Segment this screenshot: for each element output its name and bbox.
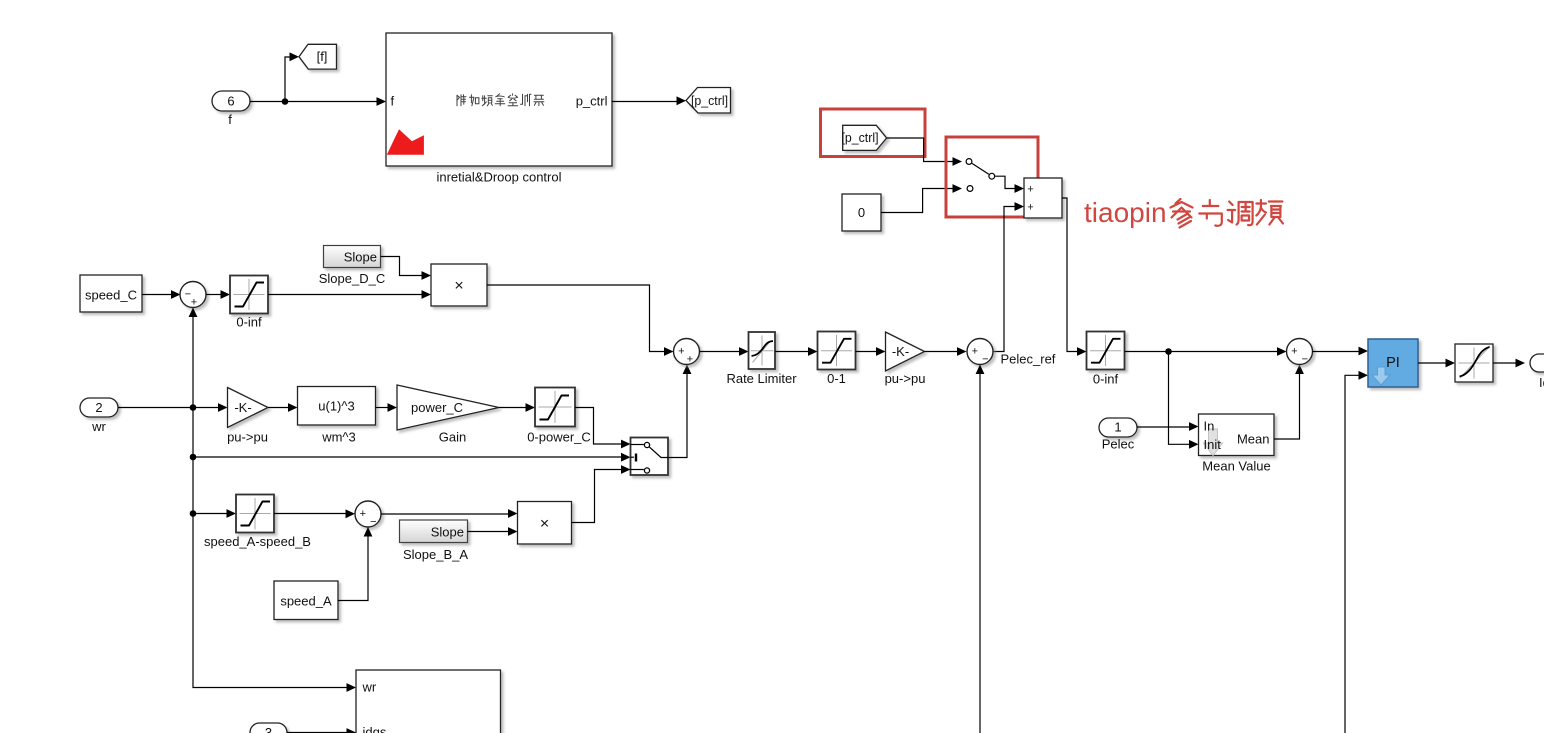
wire wm^3 -> power_C (376, 403, 398, 412)
outport (cut off at right edge) (1530, 354, 1544, 372)
Mean Value block (1199, 414, 1275, 456)
svg-text:Slope_D_C: Slope_D_C (319, 271, 386, 286)
manual switch SW1 (966, 159, 1024, 193)
wire wr trunk -> switch in2 (190, 454, 197, 461)
wire Pelec_ref sum up to S1 in2 (994, 202, 1025, 351)
svg-text:Id: Id (1539, 375, 1544, 390)
svg-text:−: − (1302, 353, 1308, 365)
wire S1 out down to 0-inf (1062, 198, 1087, 356)
svg-text:p_ctrl: p_ctrl (576, 94, 608, 109)
wire sum S8 -> PI (1313, 347, 1369, 356)
svg-text:Init: Init (1204, 437, 1222, 452)
CJK title 附加频率控制器 (drawn as paths) (457, 94, 544, 106)
red annotation text tiaopin参与调频 (1084, 197, 1283, 228)
gain G2 pu->pu (886, 332, 925, 371)
svg-text:+: + (1027, 201, 1033, 213)
PI block (blue referenced subsystem) (1368, 339, 1418, 387)
sum S8 (circle + -) (1287, 339, 1313, 365)
saturation 0-power_C (535, 388, 575, 427)
svg-text:×: × (540, 516, 549, 533)
fcn block wm^3 u(1)^3 (298, 387, 376, 426)
svg-text:0-inf: 0-inf (1093, 372, 1119, 387)
switch SW2 (631, 438, 669, 476)
svg-text:6: 6 (227, 94, 234, 109)
red annotation box 2 (946, 137, 1038, 217)
svg-text:PI: PI (1386, 355, 1400, 371)
wire trunk -> saturation speed_A-speed_B (193, 509, 236, 518)
wire product P2 -> switch in3 (572, 465, 631, 522)
wire power_C -> 0-power_C (499, 403, 535, 412)
svg-text:Slope: Slope (344, 250, 377, 265)
constant Slope (Slope_B_A) (400, 520, 468, 543)
svg-text:+: + (678, 346, 684, 358)
svg-text:wr: wr (91, 419, 106, 434)
svg-text:[p_ctrl]: [p_ctrl] (842, 130, 879, 145)
wire sum -> saturation 0-inf (206, 290, 230, 299)
wire Slope -> product top input (381, 257, 432, 280)
saturation speed_A-speed_B (236, 495, 274, 533)
wire gain -> sum Pelec_ref (925, 347, 967, 356)
wire sum S6 -> Rate Limiter (700, 347, 749, 356)
svg-text:×: × (454, 278, 463, 295)
subsystem U2 (cut off at bottom) (356, 670, 501, 733)
svg-text:Pelec: Pelec (1102, 437, 1135, 452)
svg-text:Slope_B_A: Slope_B_A (403, 547, 468, 562)
svg-text:speed_A-speed_B: speed_A-speed_B (204, 534, 311, 549)
subsystem U1 inretial&Droop control (386, 33, 612, 166)
sum S6 (circle + +) (674, 339, 700, 365)
wire gain -> wm^3 (268, 403, 298, 412)
constant speed_A (274, 581, 338, 620)
inport 1 (Pelec) (1099, 418, 1137, 437)
wire 0-power_C -> switch in1 (575, 408, 631, 449)
svg-text:In: In (1204, 419, 1215, 434)
gain power_C (397, 385, 499, 430)
svg-text:0-inf: 0-inf (236, 315, 262, 330)
wire product -> sum (+ +) (487, 285, 674, 356)
svg-text:speed_C: speed_C (85, 288, 137, 303)
svg-text:3: 3 (265, 725, 272, 733)
svg-text:pu->pu: pu->pu (227, 430, 268, 445)
init gray arrow icon (1204, 429, 1223, 456)
inport 2 (wr) (80, 398, 118, 417)
red waveform icon (387, 129, 424, 155)
wire saturation -> sum S5 (274, 509, 355, 518)
saturation 0-inf (left) (230, 276, 268, 314)
product P2 (x) (518, 502, 572, 545)
svg-text:[f]: [f] (317, 49, 328, 64)
sum S2 (circle - +) (180, 282, 206, 308)
gain G1 pu->pu (228, 388, 269, 428)
saturation 0-1 (818, 332, 856, 370)
wire 0-inf -> sum S8 (1125, 347, 1287, 356)
wire speed_A -> sum S5 bottom (338, 527, 372, 601)
svg-text:idqs: idqs (363, 725, 387, 733)
product P1 (x) (431, 264, 487, 306)
svg-text:[p_ctrl]: [p_ctrl] (691, 93, 728, 108)
svg-text:+: + (972, 346, 978, 358)
wire long vertical 2 -> PI in2 (1345, 371, 1368, 733)
svg-text:+: + (1027, 183, 1033, 195)
node junction after 0-inf (1165, 348, 1172, 355)
wire Slope_B_A -> product P2 bottom (468, 527, 518, 536)
svg-text:pu->pu: pu->pu (885, 371, 926, 386)
svg-text:Rate Limiter: Rate Limiter (726, 371, 797, 386)
svg-text:+: + (687, 353, 693, 365)
wire long vertical 1 up into S7 bottom (976, 365, 985, 733)
wire junction down -> Mean Value Init (1169, 352, 1199, 449)
svg-text:Gain: Gain (439, 430, 466, 445)
svg-text:tiaopin: tiaopin (1084, 197, 1167, 228)
rate limiter block (749, 332, 776, 369)
constant 0 (842, 194, 881, 231)
svg-text:f: f (228, 112, 232, 127)
wire from [p_ctrl] -> manual switch in1 (887, 138, 962, 166)
wire subsystem -> goto [p_ctrl] (612, 96, 686, 105)
svg-text:-K-: -K- (234, 400, 251, 415)
wire PI -> shaping block (1418, 359, 1455, 368)
svg-text:1: 1 (1114, 420, 1121, 435)
svg-text:0: 0 (858, 205, 865, 220)
PI badge arrow (1372, 367, 1390, 385)
svg-text:0-power_C: 0-power_C (527, 430, 591, 445)
svg-text:power_C: power_C (411, 400, 463, 415)
svg-text:wr: wr (362, 680, 377, 695)
from tag [p_ctrl] (843, 125, 887, 150)
svg-text:+: + (1291, 346, 1297, 358)
node junction wr/vertical (190, 404, 197, 411)
wire 6 -> subsystem f (250, 97, 386, 106)
wire 0-1 -> gain (856, 347, 886, 356)
constant speed_C (80, 275, 142, 312)
node junction trunk/speed_A row (190, 510, 197, 517)
wire 2 -> gain pu->pu (118, 403, 228, 412)
svg-text:Mean Value: Mean Value (1202, 459, 1270, 474)
svg-text:−: − (370, 516, 376, 528)
sum S5 (circle + -) (355, 501, 381, 527)
svg-text:u(1)^3: u(1)^3 (318, 399, 354, 414)
wire switch -> sum (+ +) bottom (668, 365, 691, 458)
svg-text:Mean: Mean (1237, 432, 1270, 447)
wire speed_C -> sum (142, 290, 181, 299)
wire Mean -> sum S8 bottom (1274, 365, 1304, 440)
svg-text:−: − (982, 353, 988, 365)
wire vertical trunk from wr up to sum S2 and down to subsystem (189, 308, 356, 692)
svg-text:speed_A: speed_A (280, 594, 332, 609)
sum block S1 (rectangular ++) (1024, 178, 1062, 218)
svg-text:inretial&Droop control: inretial&Droop control (436, 170, 561, 185)
svg-text:Pelec_ref: Pelec_ref (1001, 352, 1056, 367)
constant Slope (Slope_D_C) (324, 246, 381, 268)
svg-text:wm^3: wm^3 (321, 430, 356, 445)
svg-text:+: + (191, 297, 197, 309)
wire branch to goto [f] (285, 52, 299, 101)
wire 1 -> Mean Value In (1137, 422, 1199, 431)
svg-text:-K-: -K- (892, 344, 909, 359)
wire shaping -> outport (1493, 359, 1525, 368)
wire saturation -> product bottom input (268, 290, 431, 299)
goto tag [p_ctrl] (686, 88, 731, 114)
wire 3 -> idqs (287, 728, 356, 733)
saturation 0-inf (right) (1087, 332, 1125, 370)
node junction on f wire (282, 98, 289, 105)
svg-text:f: f (391, 94, 395, 109)
svg-text:0-1: 0-1 (827, 371, 846, 386)
svg-text:2: 2 (95, 400, 102, 415)
goto tag [f] (299, 44, 337, 69)
svg-text:+: + (360, 508, 366, 520)
red annotation box 1 (821, 109, 926, 157)
wire Rate Limiter -> 0-1 (775, 347, 818, 356)
sum S7 Pelec_ref (circle + -) (967, 339, 993, 365)
svg-text:Slope: Slope (431, 525, 464, 540)
wire sum S5 -> product P2 top (381, 509, 518, 518)
wire 0 -> manual switch in2 (881, 184, 962, 212)
shaping block (curve) (1455, 344, 1493, 382)
inport 3 (cut off) (250, 723, 287, 733)
inport 6 (f) (212, 91, 250, 111)
